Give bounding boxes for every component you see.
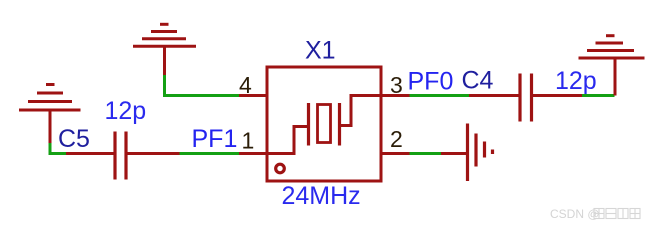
watermark CSDN [550,207,640,221]
net label PF1 [192,125,238,153]
wire (green) pin 2 to GND4 [410,152,442,155]
svg-text:12p: 12p [105,97,147,125]
wire (green) net PF0 [410,94,470,97]
svg-text:3: 3 [390,72,403,98]
svg-text:PF1: PF1 [192,125,238,153]
pin 2 of X1 [381,152,410,155]
value 12p (C4) [555,67,597,95]
crystal X1 body box [267,67,381,181]
value 12p (C5) [105,97,147,125]
svg-text:PF0: PF0 [408,68,454,96]
svg-text:CSDN @: CSDN @ [550,207,600,221]
ground GND3 (top right) [579,36,645,96]
designator C5 [58,125,90,153]
svg-text:X1: X1 [305,37,336,65]
wire (green) C4 to GND3 [582,94,615,97]
designator X1 [305,37,336,65]
net label PF0 [408,68,454,96]
ground GND2 (top middle, above pin 4) [133,24,196,75]
pin number 2 [390,126,403,152]
crystal symbol inside X1 [267,96,381,154]
wire (green) from GND1 down to C5 left node [50,143,66,154]
pin 1 marker dot inside X1 [276,164,285,173]
pin 4 of X1 [239,94,266,97]
pin number 3 [390,72,403,98]
wire (green) from GND2 to pin 4 [165,75,240,96]
capacitor C4 [469,74,582,122]
svg-text:2: 2 [390,126,403,152]
wire (green) net PF1 [180,152,240,155]
svg-text:12p: 12p [555,67,597,95]
designator C4 [462,67,494,95]
ground GND1 (left, above C5 net) [19,85,81,144]
ground GND4 (right of pin 2, rotated) [441,124,493,182]
svg-text:C4: C4 [462,67,494,95]
svg-text:24MHz: 24MHz [282,182,361,210]
pin 1 of X1 [239,152,266,155]
svg-text:C5: C5 [58,125,90,153]
capacitor C5 [66,132,180,180]
value 24MHz [282,182,361,210]
svg-text:4: 4 [239,72,252,98]
svg-text:1: 1 [242,128,255,154]
pin number 4 [239,72,252,98]
pin number 1 [242,128,255,154]
pin 3 of X1 [381,94,410,97]
